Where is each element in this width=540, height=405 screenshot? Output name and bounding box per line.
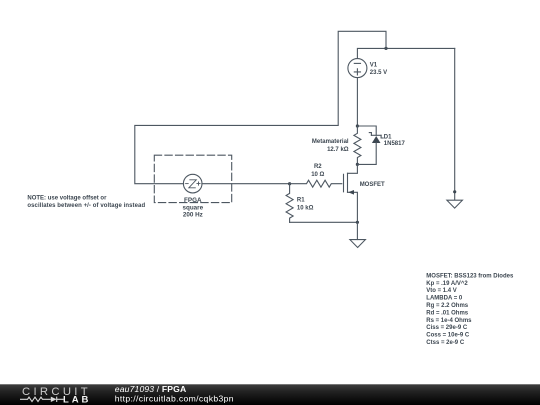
svg-text:Ciss = 29e-9 C: Ciss = 29e-9 C [426,325,468,331]
svg-text:NOTE: use voltage offset or: NOTE: use voltage offset or [27,195,107,201]
svg-text:Ctss = 2e-9 C: Ctss = 2e-9 C [426,340,465,346]
svg-text:LAMBDA = 0: LAMBDA = 0 [426,296,463,302]
node junction dot on top rail [384,47,387,50]
svg-text:oscillates between +/- of volt: oscillates between +/- of voltage instea… [27,203,145,209]
svg-text:Kp = .19 A/V^2: Kp = .19 A/V^2 [426,281,468,287]
wire: diode branch top [357,126,376,135]
logo resistor+diode glyph [20,397,64,402]
voltage source V1 circle [348,59,367,78]
ground symbol bottom [350,240,366,248]
resistor R2 (horizontal) [290,180,342,187]
dashed FPGA box [154,155,231,202]
node junction dot below source [356,221,359,224]
svg-text:23.5 V: 23.5 V [370,70,387,76]
node junction dot top of metamaterial resistor [356,124,359,127]
wire: right rail down to ground [454,48,456,199]
svg-text:Rd = .01 Ohms: Rd = .01 Ohms [426,310,469,316]
svg-text:http://circuitlab.com/cqkb3pn: http://circuitlab.com/cqkb3pn [115,393,234,403]
node junction dot bottom of metamaterial resistor [356,163,359,166]
svg-text:12.7 kΩ: 12.7 kΩ [327,147,349,153]
svg-text:Vto = 1.4 V: Vto = 1.4 V [426,288,457,294]
transistor MOSFET (NMOS) [348,164,358,173]
wire: source node to ground [356,222,358,239]
node dot above right ground [453,190,456,193]
svg-text:Coss = 10e-9 C: Coss = 10e-9 C [426,333,470,339]
svg-text:Rg = 2.2 Ohms: Rg = 2.2 Ohms [426,303,469,309]
node junction dot at R1/R2 [288,182,291,185]
svg-text:10 kΩ: 10 kΩ [297,205,314,211]
svg-text:D1: D1 [384,134,392,140]
svg-text:FPGA: FPGA [184,197,202,204]
svg-text:R2: R2 [314,164,322,170]
svg-text:R1: R1 [297,198,305,204]
resistor Metamaterial 12.7k (vertical) [354,126,361,164]
svg-text:Metamaterial: Metamaterial [312,139,349,145]
svg-text:1N5817: 1N5817 [384,141,406,147]
diode D1 schottky (vertical, cathode up) [371,134,381,136]
svg-text:LAB: LAB [63,394,91,405]
wire: V1 top terminal to top rail [357,48,454,58]
wire: FPGA right terminal to gate node [202,183,290,185]
wire: bottom rail R1 to source node [290,221,358,223]
wire: top rail loop to FPGA left terminal [135,31,386,183]
wire: diode branch bottom [357,143,376,165]
svg-text:square: square [182,205,203,212]
ground symbol right [447,200,463,208]
svg-text:V1: V1 [370,63,378,69]
wire: V1 bottom to parallel block top node [356,78,358,126]
resistor R1 (vertical) [286,184,293,223]
source FPGA circle [183,174,202,193]
svg-text:200 Hz: 200 Hz [183,212,203,219]
svg-text:10 Ω: 10 Ω [311,172,324,178]
svg-text:Rs = 1e-4 Ohms: Rs = 1e-4 Ohms [426,318,472,324]
svg-text:MOSFET: MOSFET [360,182,385,188]
svg-text:MOSFET: BSS123 from Diodes: MOSFET: BSS123 from Diodes [426,273,514,279]
